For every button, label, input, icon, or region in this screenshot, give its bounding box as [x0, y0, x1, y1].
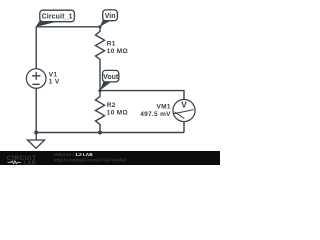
svg-text:V1: V1 — [49, 71, 58, 78]
svg-text:10 MΩ: 10 MΩ — [107, 110, 128, 117]
svg-text:eMinion / 1.2 LAB: eMinion / 1.2 LAB — [54, 152, 94, 157]
svg-text:http://circuitlab.com/c/7da74r: http://circuitlab.com/c/7da74r6d42 — [54, 158, 127, 163]
svg-text:V: V — [181, 100, 187, 110]
svg-text:497.5 mV: 497.5 mV — [140, 111, 171, 118]
svg-text:Circuit_1: Circuit_1 — [42, 14, 73, 21]
svg-text:Vin: Vin — [105, 13, 116, 20]
svg-text:R2: R2 — [107, 102, 116, 109]
svg-text:1 V: 1 V — [49, 79, 60, 86]
svg-text:LAB: LAB — [24, 160, 37, 165]
svg-text:10 MΩ: 10 MΩ — [107, 48, 128, 55]
svg-text:Vout: Vout — [103, 74, 119, 81]
svg-text:VM1: VM1 — [157, 104, 171, 111]
svg-text:R1: R1 — [107, 40, 116, 47]
